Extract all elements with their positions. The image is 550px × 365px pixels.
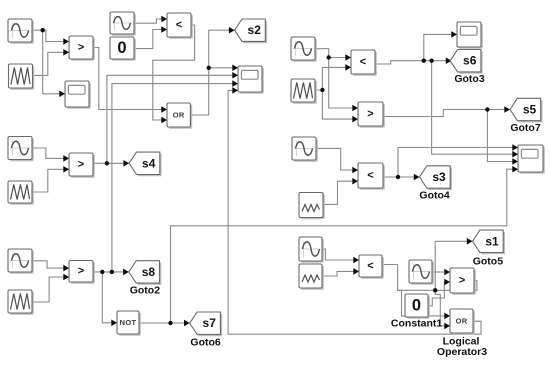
wire Sine6 to RelOp7 in1 (316, 148, 358, 173)
junction node D (100, 270, 104, 274)
sine wave source Sine1 (8, 19, 34, 44)
goto tag s5 (510, 98, 543, 122)
wire s3 node to Scope4 in1 (398, 144, 518, 177)
svg-text:<: < (360, 56, 366, 68)
logical operator OR1 (167, 103, 192, 129)
sawtooth source Saw6 (299, 264, 324, 290)
svg-text:>: > (367, 108, 373, 120)
svg-text:s7: s7 (203, 316, 217, 330)
sine wave source Sine8 (409, 260, 434, 285)
wire s7 node long run to Scope4 in4 (171, 166, 519, 323)
wire Constant1 to RelOp9 in2 (428, 279, 450, 306)
svg-text:Goto6: Goto6 (190, 336, 220, 348)
junction node L (396, 175, 400, 179)
wire RelOp7 out to tag s3 (383, 174, 420, 181)
relational operator RelOp5 (351, 50, 377, 76)
wire Sine5 to RelOp5 in1 (315, 49, 351, 61)
svg-text:s8: s8 (142, 265, 156, 279)
svg-text:s5: s5 (523, 103, 537, 117)
wire RelOp3 out to tag s4 (93, 160, 129, 167)
wire Saw1 to RelOp1 in2 (33, 49, 70, 75)
wire Sine7 to RelOp8 in1 (322, 249, 359, 263)
junction node G (327, 55, 331, 59)
goto tag s7 (190, 312, 223, 336)
wire OR2 out loop to Scope2 in4 (228, 87, 481, 334)
svg-text:<: < (367, 170, 373, 182)
wire RelOp4 out to tag s8 (92, 269, 128, 276)
wire RelOp2 out to OR1 in2 (153, 25, 195, 123)
wire node to tag s1 (435, 238, 472, 290)
relational operator RelOp1 (69, 36, 95, 61)
wire s8 node to Scope2 in3 (112, 80, 238, 272)
wire RelOp9 out loop (398, 281, 477, 291)
junction node I (422, 59, 426, 63)
svg-text:OR: OR (173, 111, 185, 120)
svg-text:0: 0 (117, 39, 126, 57)
svg-text:>: > (78, 42, 84, 54)
junction node C (105, 161, 109, 165)
wire Sine1 to RelOp1 in1 (32, 30, 69, 45)
relational operator RelOp8 (359, 255, 384, 279)
wire branch to NOT1 (102, 272, 117, 326)
wire Saw4 to RelOp5 in2 (315, 64, 351, 90)
scope Scope4 (518, 145, 545, 174)
wire branch to RelOp6 in1 (329, 58, 358, 112)
svg-text:>: > (459, 275, 465, 287)
relational operator RelOp9 (450, 268, 476, 295)
svg-text:s1: s1 (485, 234, 499, 248)
goto tag s2 (235, 19, 267, 43)
goto tag s1 (473, 230, 506, 254)
wire Saw6 to RelOp8 in2 (322, 268, 359, 276)
svg-text:Goto5: Goto5 (473, 255, 503, 267)
svg-text:s6: s6 (463, 54, 477, 68)
wire Saw2 to RelOp3 in2 (32, 166, 69, 192)
wire Sine8 to RelOp9 in1 (432, 269, 450, 276)
wire branch to Scope3 (424, 31, 457, 61)
sawtooth source Saw1 (9, 64, 35, 90)
svg-text:Goto2: Goto2 (130, 285, 160, 297)
svg-text:Goto7: Goto7 (510, 122, 540, 134)
sawtooth source Saw4 (291, 79, 317, 104)
junction node K (485, 107, 489, 111)
junction node A (41, 28, 45, 32)
svg-text:<: < (176, 19, 182, 31)
wire branch to Scope4 in2 (432, 61, 518, 158)
wire Sine2 to RelOp2 in1 (134, 16, 167, 24)
wire RelOp5 out to tag s6 (375, 57, 452, 64)
sawtooth source Saw5 (299, 193, 325, 220)
sawtooth source Saw2 (8, 181, 34, 205)
svg-text:s3: s3 (432, 170, 446, 184)
svg-text:Goto4: Goto4 (419, 189, 449, 201)
svg-text:>: > (78, 265, 84, 277)
svg-text:s2: s2 (248, 23, 262, 37)
svg-text:0: 0 (412, 297, 421, 315)
wire OR1 out up to tag s2 (190, 27, 234, 115)
sine wave source Sine4 (8, 249, 34, 274)
wire RelOp1 out to OR1 in1 (93, 48, 167, 113)
svg-text:>: > (78, 159, 84, 171)
junction node M (433, 288, 437, 292)
wire junction to Scope2 in1 (209, 65, 238, 72)
scope Scope2 (238, 66, 264, 94)
scope Scope3 (457, 22, 483, 49)
wire RelOp8 out to OR2 in1 (382, 265, 450, 320)
sine wave source Sine7 (299, 237, 324, 263)
constant block 0 (110, 37, 136, 61)
relational operator RelOp6 (358, 102, 385, 128)
wire branch to Scope4 in3 (487, 110, 518, 165)
junction node F (168, 321, 172, 325)
wire branch to RelOp6 in2 (322, 90, 358, 122)
goto tag s3 (420, 166, 453, 190)
wire node to OR2 in2 (435, 290, 450, 329)
wire branch to Scope1 (43, 30, 65, 97)
goto tag s8 (129, 261, 162, 285)
junction node H (320, 88, 324, 92)
svg-text:Goto3: Goto3 (454, 73, 484, 85)
goto tag s4 (129, 152, 162, 176)
wire Sine4 to RelOp4 in1 (32, 261, 69, 272)
svg-text:OR: OR (456, 317, 468, 326)
wire RelOp6 out to tag s5 (383, 106, 510, 116)
wire NOT1 out to tag s7 (139, 320, 190, 327)
svg-text:<: < (367, 260, 373, 272)
relational operator RelOp4 (69, 261, 95, 284)
sine wave source Sine6 (292, 137, 318, 162)
sine wave source Sine3 (8, 137, 34, 162)
logical operator NOT1 (117, 311, 141, 336)
wire Saw5 to RelOp7 in2 (323, 178, 358, 205)
sine wave source Sine5 (291, 37, 317, 62)
svg-text:s4: s4 (142, 156, 156, 170)
relational operator RelOp2 (167, 13, 193, 39)
junction node J (429, 59, 433, 63)
wire Sine3 to RelOp3 in1 (32, 148, 69, 162)
scope Scope1 (65, 81, 91, 109)
goto tag s6 (450, 50, 482, 74)
svg-text:Constant1: Constant1 (391, 318, 442, 330)
relational operator RelOp7 (358, 163, 385, 190)
junction node B (207, 66, 211, 70)
svg-text:NOT: NOT (120, 318, 137, 327)
relational operator RelOp3 (69, 153, 95, 178)
junction node E (110, 270, 114, 274)
wire s4 node to Scope2 in2 (107, 72, 238, 163)
logical operator OR2 (450, 309, 475, 335)
sawtooth source Saw3 (8, 290, 34, 315)
wire Saw3 to RelOp4 in2 (32, 274, 69, 302)
sine wave source Sine2 (110, 12, 136, 36)
wire Constant0 to RelOp2 in2 (134, 26, 167, 48)
svg-text:Operator3: Operator3 (437, 346, 487, 358)
constant block Constant1 (405, 294, 430, 319)
